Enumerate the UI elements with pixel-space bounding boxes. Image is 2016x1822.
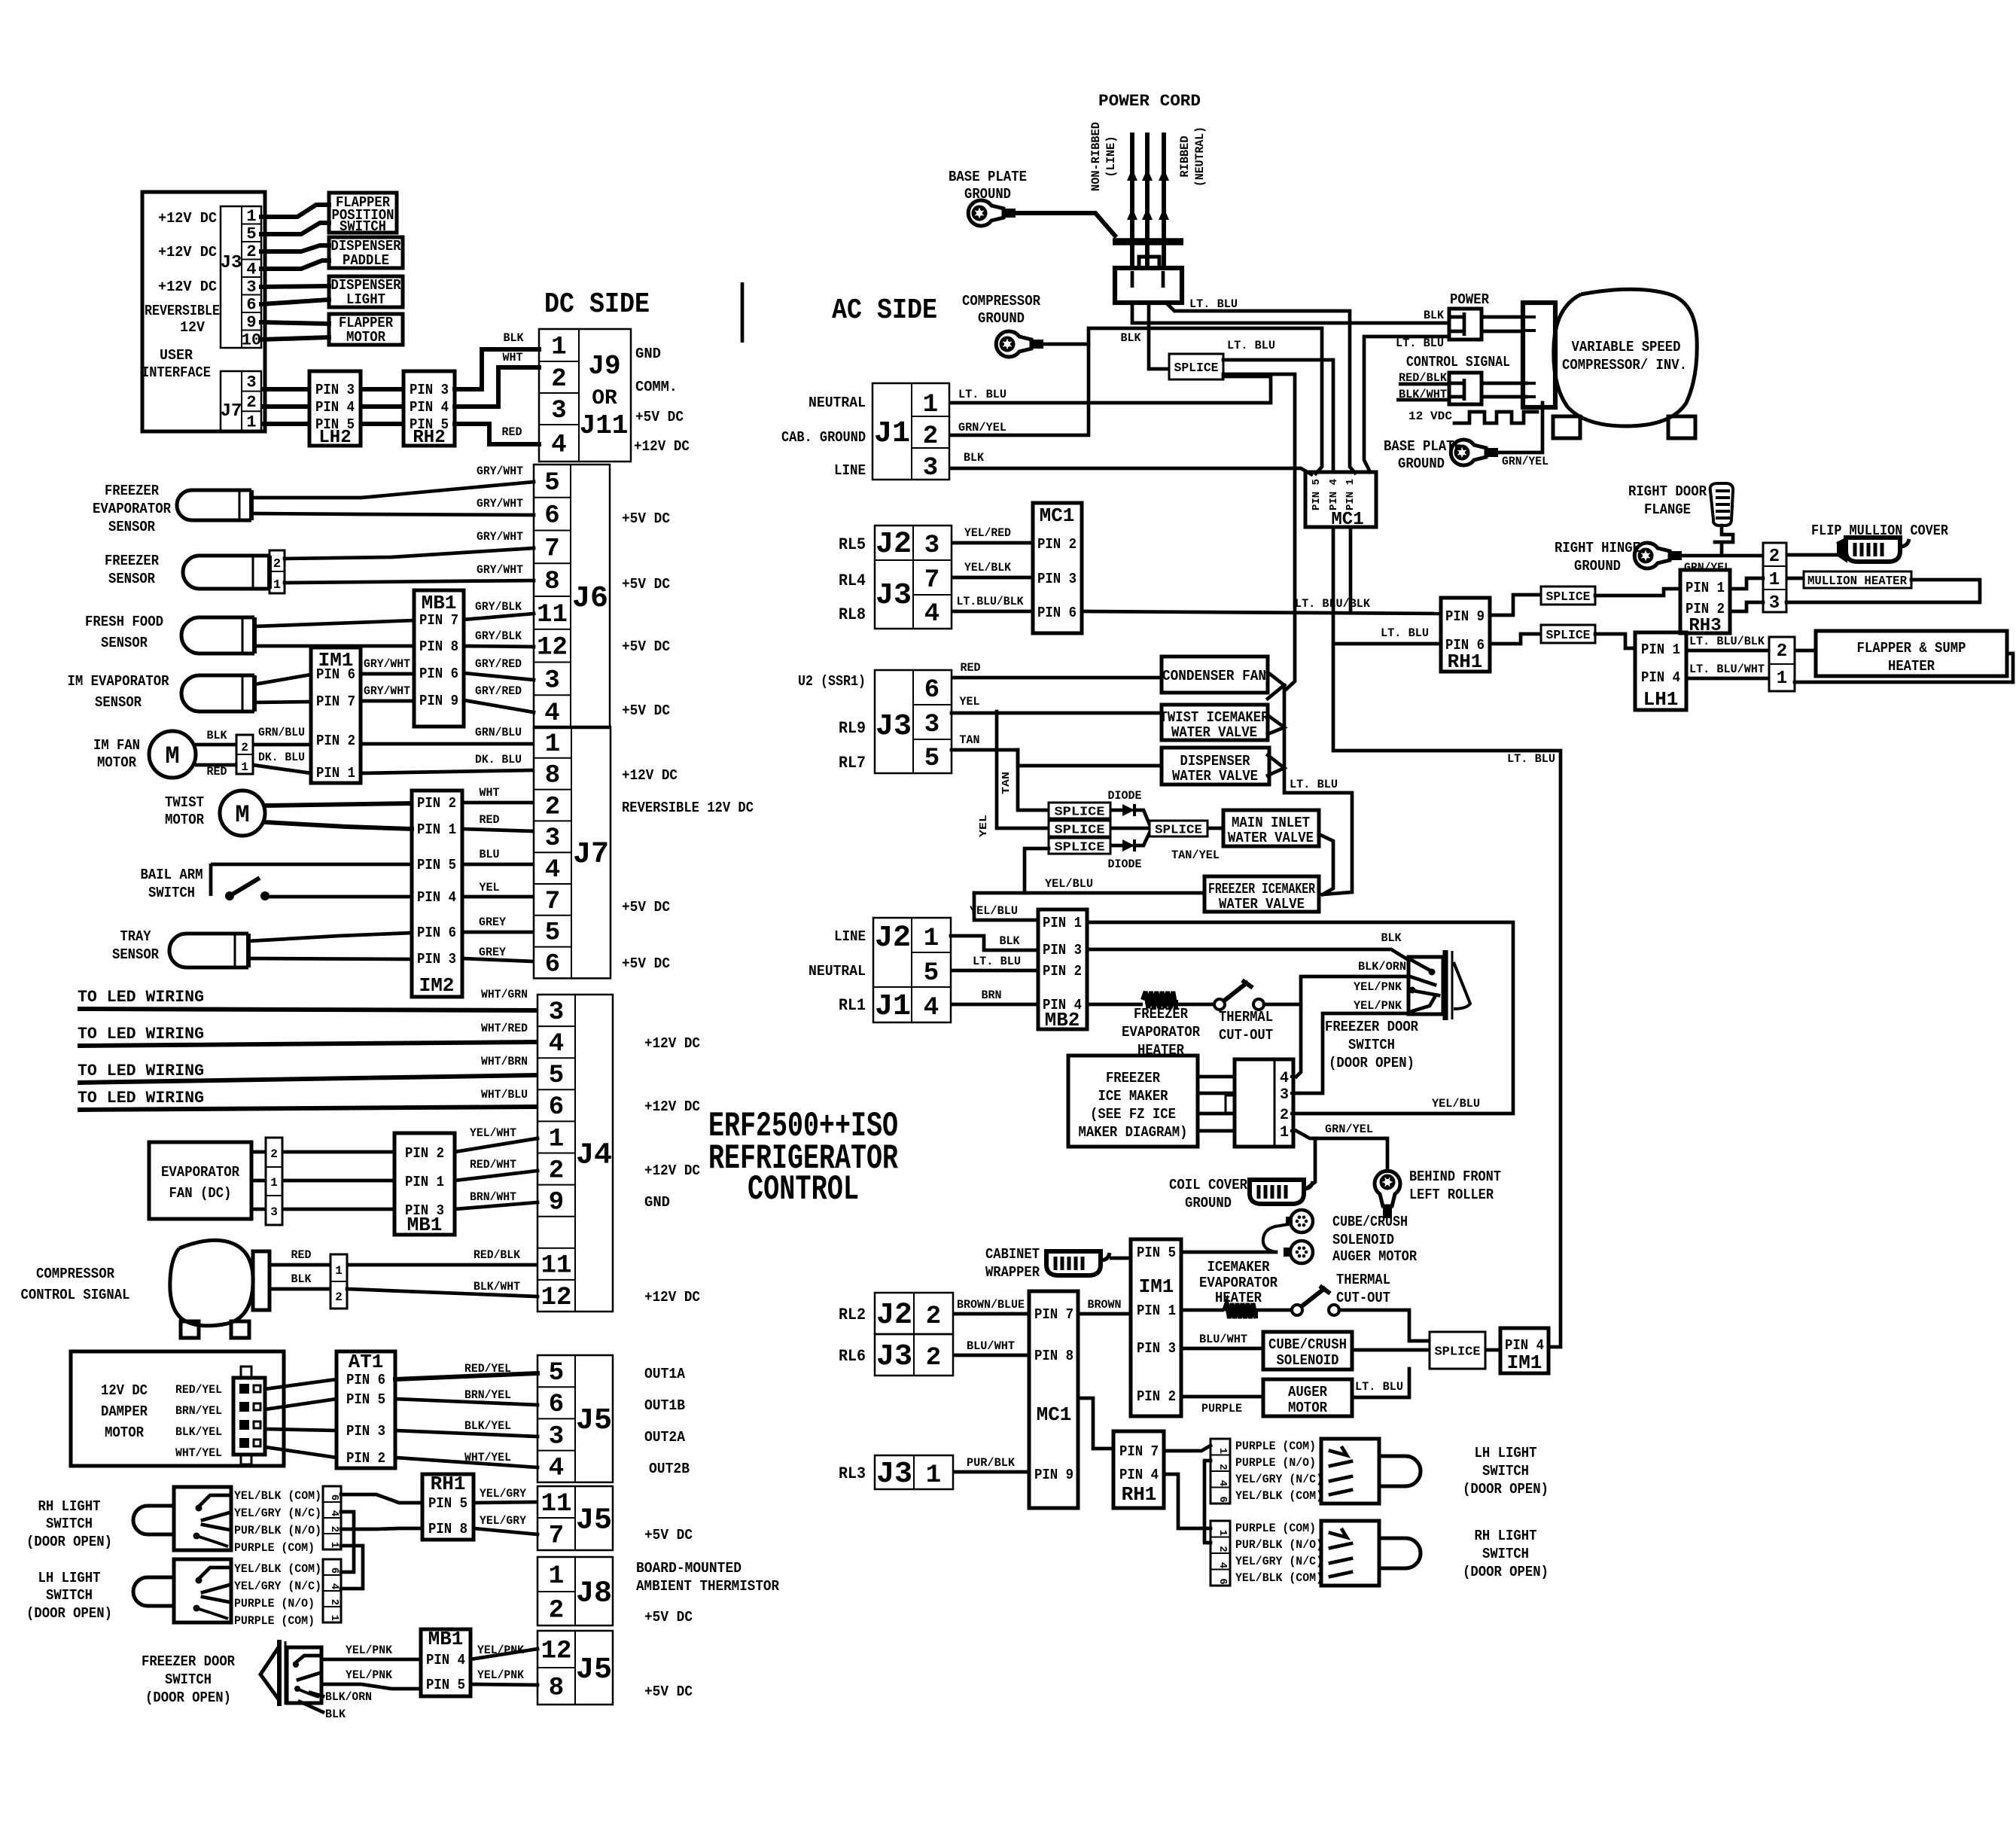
svg-text:SOLENOID: SOLENOID (1332, 1232, 1394, 1248)
svg-text:U2 (SSR1): U2 (SSR1) (798, 673, 866, 690)
im fan motor (149, 731, 196, 778)
svg-text:J11: J11 (580, 410, 629, 441)
freezer door switch label (dc) (142, 1653, 236, 1706)
svg-text:RL7: RL7 (839, 754, 866, 772)
twist icemaker water valve box (1160, 705, 1270, 741)
behind front left roller label (1409, 1168, 1501, 1203)
title DC SIDE (544, 288, 650, 321)
svg-text:PIN 4: PIN 4 (315, 399, 355, 416)
svg-text:LEFT ROLLER: LEFT ROLLER (1409, 1187, 1494, 1203)
wire RH1-7 to strip1 (1164, 1446, 1211, 1451)
svg-text:12V: 12V (180, 319, 206, 336)
svg-text:PIN 5: PIN 5 (428, 1495, 467, 1512)
svg-text:THERMAL: THERMAL (1219, 1009, 1273, 1025)
svg-text:WATER VALVE: WATER VALVE (1172, 768, 1258, 785)
label TO LED WIRING 2 (78, 1025, 204, 1044)
svg-text:1: 1 (335, 1264, 343, 1278)
svg-text:GREY: GREY (479, 946, 506, 959)
label +12V DC (J4 b) (644, 1098, 700, 1115)
svg-text:RIBBED: RIBBED (1178, 136, 1192, 178)
svg-text:WATER VALVE: WATER VALVE (1219, 896, 1305, 913)
wire AT1-2 to J5-4 (395, 1458, 537, 1467)
svg-text:RIGHT DOOR: RIGHT DOOR (1628, 483, 1707, 500)
svg-text:GROUND: GROUND (1398, 455, 1445, 472)
label RIBBED (NEUTRAL) (1178, 126, 1207, 187)
label GRN/BLU (J7) (475, 726, 522, 739)
svg-text:YEL/PNK: YEL/PNK (346, 1644, 392, 1657)
svg-text:12 VDC: 12 VDC (1408, 410, 1452, 423)
power plug (1449, 309, 1482, 340)
svg-text:11: 11 (537, 601, 568, 629)
svg-text:1: 1 (551, 333, 566, 361)
svg-text:AT1: AT1 (349, 1351, 384, 1373)
svg-text:GRY/WHT: GRY/WHT (477, 563, 523, 577)
svg-text:RH LIGHT: RH LIGHT (38, 1498, 101, 1515)
svg-text:MB1: MB1 (428, 1628, 464, 1650)
wire AT1-5 to J5-6 (395, 1399, 537, 1405)
svg-text:RH1: RH1 (1448, 650, 1483, 673)
freezer door switch symbol (ac) (1408, 950, 1470, 1020)
wire to led wiring 4 (78, 1107, 537, 1110)
svg-text:6: 6 (549, 1093, 564, 1122)
label WHT (J7) (480, 786, 500, 800)
wire MB1-4 to J5-12 (471, 1649, 537, 1659)
svg-text:2: 2 (545, 793, 560, 821)
variable speed compressor blob (1554, 289, 1697, 426)
splice (ac) (1169, 354, 1223, 379)
svg-text:J5: J5 (576, 1653, 612, 1687)
svg-text:3: 3 (924, 711, 939, 739)
svg-text:WHT: WHT (503, 351, 523, 364)
label +12V DC (J7) (622, 767, 678, 784)
label RED (J7) (480, 813, 500, 827)
svg-text:RL3: RL3 (839, 1464, 866, 1483)
label WHT/GRN (481, 988, 528, 1001)
wire IM1-7 to MB1-9 (361, 699, 414, 703)
svg-text:+5V DC: +5V DC (622, 638, 670, 655)
rh light switch body (ac) (1321, 1521, 1421, 1586)
cube crush solenoid symbol (1263, 1210, 1313, 1252)
svg-text:GROUND: GROUND (1574, 558, 1621, 574)
wire splice2 out (1110, 827, 1150, 830)
svg-text:PIN 1: PIN 1 (417, 821, 456, 838)
wire plug to IM1-1 DK. BLU (253, 765, 311, 773)
lh light switch label (ac) (1463, 1445, 1549, 1498)
svg-text:RED: RED (207, 765, 227, 778)
svg-text:BLU/WHT: BLU/WHT (967, 1339, 1015, 1353)
svg-text:RED: RED (502, 425, 522, 439)
svg-text:TWIST ICEMAKER: TWIST ICEMAKER (1160, 709, 1270, 726)
base plate ground label (right) (1384, 438, 1462, 472)
svg-text:PURPLE (COM): PURPLE (COM) (234, 1614, 315, 1628)
freezer icemaker water valve box (1204, 876, 1319, 913)
wire blk/wht stub (1396, 398, 1449, 402)
label WHT/YEL (464, 1451, 511, 1464)
svg-text:LT. BLU: LT. BLU (973, 955, 1021, 968)
wire J7-1 to LH2 pin5 (261, 422, 309, 426)
svg-text:+12V DC: +12V DC (644, 1098, 700, 1115)
svg-text:BRN/WHT: BRN/WHT (470, 1190, 516, 1204)
connector J5 (fds) (537, 1631, 613, 1705)
svg-text:RH2: RH2 (413, 428, 445, 448)
svg-text:SENSOR: SENSOR (101, 635, 148, 651)
damper wire labels (175, 1383, 222, 1460)
svg-text:CUBE/CRUSH: CUBE/CRUSH (1332, 1214, 1408, 1230)
svg-text:GREY: GREY (479, 916, 506, 929)
label GRY/WHT 6 (364, 684, 410, 698)
label +12V DC (J9) (634, 438, 690, 455)
svg-text:YEL/BLK (COM): YEL/BLK (COM) (234, 1562, 321, 1576)
wire RL4 to MC1-3 (952, 576, 1033, 580)
svg-text:PIN 2: PIN 2 (405, 1145, 444, 1162)
rh switch strip (ac) (1211, 1521, 1230, 1586)
svg-text:2: 2 (1280, 1107, 1289, 1124)
label YEL (vert) (978, 815, 990, 837)
svg-text:IM FAN: IM FAN (93, 737, 140, 754)
svg-text:TAN: TAN (960, 733, 980, 747)
user interface box (142, 192, 265, 431)
svg-text:J7: J7 (221, 401, 242, 422)
svg-text:WHT/BRN: WHT/BRN (481, 1055, 528, 1068)
wire ctl to inverter b (1482, 395, 1528, 399)
svg-text:PADDLE: PADDLE (343, 252, 389, 269)
wire strip link (ac) (1204, 1461, 1211, 1543)
svg-text:FLANGE: FLANGE (1644, 501, 1691, 518)
svg-text:RL4: RL4 (839, 571, 866, 590)
svg-text:3: 3 (924, 532, 939, 560)
flapper motor box (329, 314, 403, 346)
svg-text:BLU/WHT: BLU/WHT (1199, 1333, 1247, 1346)
svg-text:IM EVAPORATOR: IM EVAPORATOR (68, 673, 170, 690)
svg-text:YEL/BLU: YEL/BLU (970, 904, 1018, 918)
wire splice4 to main inlet (1207, 827, 1223, 830)
label YEL (rl9) (960, 695, 980, 708)
svg-text:3: 3 (246, 373, 256, 392)
label CONTROL SIGNAL (1406, 354, 1510, 370)
label RED/YEL (464, 1362, 511, 1376)
svg-text:SWITCH: SWITCH (1482, 1546, 1529, 1562)
svg-text:PIN 3: PIN 3 (1043, 942, 1082, 958)
label GRY/RED 1 (475, 657, 522, 671)
label GRN/YEL (J1) (958, 421, 1006, 434)
svg-text:NEUTRAL: NEUTRAL (809, 963, 866, 980)
label BLK (im fan) (207, 729, 227, 742)
svg-text:FRESH FOOD: FRESH FOOD (85, 614, 163, 630)
svg-text:2: 2 (1217, 1546, 1229, 1552)
svg-text:YEL/PNK: YEL/PNK (477, 1644, 524, 1657)
svg-text:EVAPORATOR: EVAPORATOR (1122, 1024, 1201, 1040)
svg-text:THERMAL: THERMAL (1336, 1272, 1390, 1288)
svg-text:EVAPORATOR: EVAPORATOR (1199, 1275, 1278, 1291)
wire MC1-4 down (1333, 527, 1561, 1347)
svg-text:FAN (DC): FAN (DC) (169, 1185, 232, 1202)
wire splice to MC1-4 (1223, 360, 1333, 471)
svg-text:J2: J2 (876, 528, 912, 562)
wire RH2 pin5 to J9-4 RED (455, 424, 539, 444)
wire MB2-1 yel/blu big run (1087, 922, 1513, 1114)
connector MC1 (relays) (1033, 503, 1082, 633)
svg-text:J4: J4 (576, 1138, 612, 1172)
base plate ground lug (right) (1451, 440, 1498, 465)
label YEL (J7) (480, 881, 500, 894)
wire J2-1 BLK to MB2-3 (951, 936, 1038, 950)
svg-text:4: 4 (1217, 1562, 1229, 1568)
svg-text:DK. BLU: DK. BLU (258, 751, 305, 764)
svg-text:MOTOR: MOTOR (165, 812, 205, 828)
svg-text:+5V DC: +5V DC (622, 899, 670, 916)
svg-text:IM1: IM1 (1507, 1351, 1542, 1374)
svg-text:YEL/PNK: YEL/PNK (1354, 999, 1402, 1013)
svg-text:PIN 5: PIN 5 (1137, 1245, 1176, 1261)
svg-text:PIN 3: PIN 3 (315, 382, 355, 398)
svg-text:POWER CORD: POWER CORD (1098, 92, 1201, 111)
thermal cutout (freezer) (1214, 980, 1264, 1010)
label +5V DC (J9) (635, 409, 684, 425)
label +5V DC (J6 b) (622, 576, 670, 593)
svg-text:SPLICE: SPLICE (1055, 805, 1105, 819)
label 12 VDC (1408, 410, 1452, 423)
label SOLENOID (sol) (1332, 1232, 1394, 1248)
svg-text:7: 7 (924, 566, 939, 595)
wire flapper loop (1795, 654, 2013, 682)
svg-text:3: 3 (1769, 593, 1780, 614)
svg-text:SPLICE: SPLICE (1435, 1345, 1481, 1359)
svg-text:WHT/BLU: WHT/BLU (481, 1088, 528, 1101)
svg-text:SOLENOID: SOLENOID (1277, 1352, 1339, 1369)
label CAB. GROUND (781, 429, 866, 446)
svg-text:RED: RED (291, 1248, 312, 1262)
svg-text:LH LIGHT: LH LIGHT (1475, 1445, 1537, 1461)
cube crush solenoid box (1263, 1332, 1352, 1370)
svg-text:3: 3 (545, 824, 560, 853)
right door flange symbol (1710, 483, 1733, 542)
wire MB1-7 to J6-11 (464, 614, 534, 620)
svg-text:2: 2 (1777, 641, 1787, 662)
svg-text:J1: J1 (875, 990, 911, 1024)
svg-text:YEL/BLK (COM): YEL/BLK (COM) (1235, 1489, 1323, 1503)
label RED/BLK (ctl) (1399, 371, 1447, 385)
icemaker evaporator heater coil (1224, 1303, 1256, 1318)
wire LH2 to RH2 pin4 (361, 404, 404, 409)
label +5V DC (J6 c) (622, 638, 670, 655)
inverter connector bar (1523, 303, 1555, 407)
svg-text:4: 4 (1217, 1480, 1229, 1486)
svg-text:J9: J9 (588, 351, 620, 382)
wire IM1-1 to J7-8 (361, 770, 534, 773)
label TAN/YEL (1171, 849, 1220, 862)
svg-text:1: 1 (926, 1461, 941, 1490)
svg-text:J2: J2 (875, 922, 911, 955)
wire IM2-2 to J7-2 WHT (462, 801, 534, 805)
svg-text:GRY/RED: GRY/RED (475, 684, 522, 698)
wire RH1-4 to strip2 (1164, 1474, 1211, 1528)
svg-text:BLK: BLK (291, 1272, 312, 1286)
svg-text:2: 2 (926, 1303, 941, 1331)
wire twist motor to IM2-1 (264, 822, 412, 829)
label WHT/RED (481, 1022, 528, 1035)
label LT. BLU (chain) (1290, 778, 1338, 791)
svg-text:GROUND: GROUND (1185, 1195, 1232, 1211)
right hinge ground lug (1634, 543, 1682, 568)
wire sensor to J6-5 (251, 482, 534, 498)
connector AT1 (337, 1351, 395, 1468)
svg-text:YEL/RED: YEL/RED (964, 526, 1011, 540)
svg-text:GRY/WHT: GRY/WHT (477, 465, 523, 478)
svg-text:BOARD-MOUNTED: BOARD-MOUNTED (636, 1560, 742, 1577)
svg-text:1: 1 (923, 391, 938, 419)
label YEL/BLU (ficwv) (1045, 877, 1093, 891)
wire MB1-8 to J6-12 (464, 646, 534, 647)
svg-text:PIN 5: PIN 5 (417, 857, 456, 873)
svg-text:J5: J5 (576, 1404, 612, 1438)
label YEL/RED (964, 526, 1011, 540)
svg-text:YEL/GRY: YEL/GRY (480, 1487, 526, 1501)
damper plug symbol (233, 1366, 265, 1464)
wire fds to MB1-5 YEL/PNK (321, 1684, 421, 1689)
label LT. BLU (splice) (1227, 339, 1275, 352)
svg-text:BLK: BLK (964, 451, 984, 465)
label DK. BLU (plug) (258, 751, 305, 764)
svg-text:2: 2 (335, 1290, 343, 1304)
svg-text:PIN 5: PIN 5 (426, 1677, 465, 1693)
svg-text:RL8: RL8 (839, 605, 866, 624)
wire cutout2 to splice (1339, 1310, 1430, 1341)
svg-text:BRN/YEL: BRN/YEL (175, 1404, 222, 1418)
label YEL/PNK (ac b) (1354, 999, 1402, 1013)
wire RH3-1 to conn 1 (1730, 578, 1763, 589)
wire damper to AT1-6 (265, 1379, 337, 1389)
wire plug to splice (1149, 303, 1169, 369)
connector IM1 (sensors) (311, 647, 361, 783)
wire damper to AT1-2 (265, 1447, 337, 1458)
svg-text:J7: J7 (573, 838, 609, 872)
svg-text:GRN/YEL: GRN/YEL (1502, 455, 1549, 468)
connector MB2 (1038, 909, 1087, 1031)
wire RH2 pin3 to J9-1 BLK (455, 349, 539, 389)
svg-text:6: 6 (544, 502, 559, 531)
wire MB1-3 to J4-9 BRN/WHT (455, 1202, 537, 1209)
svg-text:CUBE/CRUSH: CUBE/CRUSH (1268, 1336, 1347, 1353)
svg-text:IM2: IM2 (419, 974, 455, 997)
wire AT1-6 to J5-5 (395, 1373, 537, 1379)
svg-text:FREEZER: FREEZER (105, 553, 160, 569)
coil cover ground strap (1250, 1180, 1313, 1204)
label YEL/PNK (b) (346, 1668, 392, 1682)
label +12V DC (J4 c) (644, 1162, 700, 1179)
svg-text:GRY/RED: GRY/RED (475, 657, 522, 671)
wire RH1-9 to splice r1 (1490, 595, 1541, 615)
connector J8 (537, 1557, 613, 1625)
svg-text:1: 1 (246, 413, 256, 432)
rh switch wire labels (234, 1489, 321, 1555)
label YEL/PNK (d) (477, 1668, 524, 1682)
svg-text:LT. BLU: LT. BLU (1355, 1380, 1403, 1394)
wire J3-9 to flapper motor (261, 322, 329, 324)
wire splice3 to yel/blu (1025, 849, 1049, 893)
label RL3 (839, 1464, 866, 1483)
wire MC1-1 down (1349, 527, 1353, 614)
svg-text:4: 4 (328, 1510, 340, 1516)
svg-text:PIN 4: PIN 4 (417, 889, 456, 906)
svg-text:CABINET: CABINET (985, 1246, 1040, 1263)
svg-text:1: 1 (1769, 570, 1780, 590)
label LT. BLU (auger) (1355, 1380, 1403, 1394)
wire splice to PIN4 IM1 (1485, 1348, 1500, 1352)
wire RH1-5 to J5-11 (474, 1502, 537, 1503)
cabinet wrapper strap (1046, 1251, 1110, 1275)
label GRY/WHT 1 (477, 465, 523, 478)
svg-text:(DOOR OPEN): (DOOR OPEN) (1329, 1055, 1415, 1071)
svg-text:BLU: BLU (480, 848, 500, 861)
svg-text:PIN 2: PIN 2 (1043, 963, 1082, 980)
svg-text:J3: J3 (221, 253, 242, 273)
connector RL5/RL4/RL8 (875, 526, 952, 629)
wire compressor ground to MC1-5 (1043, 328, 1322, 474)
wire splice r1 to RH3-1 (1595, 589, 1680, 596)
svg-text:+12V DC: +12V DC (158, 279, 217, 295)
svg-text:J2: J2 (876, 1299, 912, 1333)
svg-text:6: 6 (328, 1568, 340, 1574)
power cord arrows (1127, 169, 1169, 220)
connector RL2 (875, 1293, 953, 1334)
connector RH1 (ac) (1441, 598, 1490, 673)
svg-text:AUGER MOTOR: AUGER MOTOR (1332, 1248, 1418, 1265)
label COMM. (635, 379, 678, 395)
svg-text:1: 1 (1217, 1530, 1229, 1536)
svg-text:LT. BLU: LT. BLU (1290, 778, 1338, 791)
svg-text:SENSOR: SENSOR (108, 571, 156, 587)
connector J7 (user interface) (221, 371, 261, 432)
svg-text:CAB. GROUND: CAB. GROUND (781, 429, 866, 446)
svg-text:J3: J3 (876, 1458, 912, 1491)
compressor control signal label (21, 1266, 130, 1303)
wire MC1-6 to RH1-9 (1082, 611, 1441, 614)
svg-text:MB2: MB2 (1045, 1009, 1080, 1031)
connector J7 (main) (534, 727, 611, 979)
main inlet water valve box (1223, 810, 1319, 846)
connector J4 (537, 995, 613, 1312)
svg-text:PIN 7: PIN 7 (1119, 1443, 1159, 1460)
svg-text:PIN 4: PIN 4 (1119, 1467, 1159, 1483)
wire splice to condenser chain (1223, 374, 1295, 690)
label +5V DC (J7 b) (622, 955, 670, 972)
svg-text:SENSOR: SENSOR (95, 694, 142, 711)
wire RL3 to MC1-9 (953, 1470, 1029, 1474)
label +12V DC (J4 a) (644, 1035, 700, 1052)
svg-text:TRAY: TRAY (120, 928, 152, 945)
wire power to inverter a (1482, 315, 1523, 319)
wire plug to J4-12 BLK/WHT (347, 1289, 537, 1296)
svg-text:PIN 9: PIN 9 (419, 693, 458, 709)
label YEL/GRY 2 (480, 1514, 526, 1528)
svg-text:PUR/BLK: PUR/BLK (967, 1456, 1015, 1470)
svg-text:PIN 8: PIN 8 (428, 1521, 467, 1537)
wire J7-2 to LH2 pin4 (261, 404, 309, 409)
wire conn1 to mullion heater (1786, 577, 1804, 580)
wire U2 to condenser fan RED (952, 676, 1162, 680)
wire fds to MB1-4 YEL/PNK (321, 1658, 421, 1662)
svg-text:PIN 3: PIN 3 (346, 1423, 385, 1440)
svg-text:RH1: RH1 (431, 1473, 466, 1495)
svg-text:1: 1 (241, 760, 248, 774)
label BLK (power) (1424, 309, 1444, 322)
svg-text:RH LIGHT: RH LIGHT (1475, 1528, 1537, 1544)
wire J1-1 LT.BLU to splice (951, 376, 1271, 403)
label AUGER MOTOR (1332, 1248, 1418, 1265)
label BLK (J1) (964, 451, 984, 465)
wire ctl to inverter a (1482, 382, 1528, 385)
wire RL6 to MC1-8 (953, 1354, 1029, 1357)
